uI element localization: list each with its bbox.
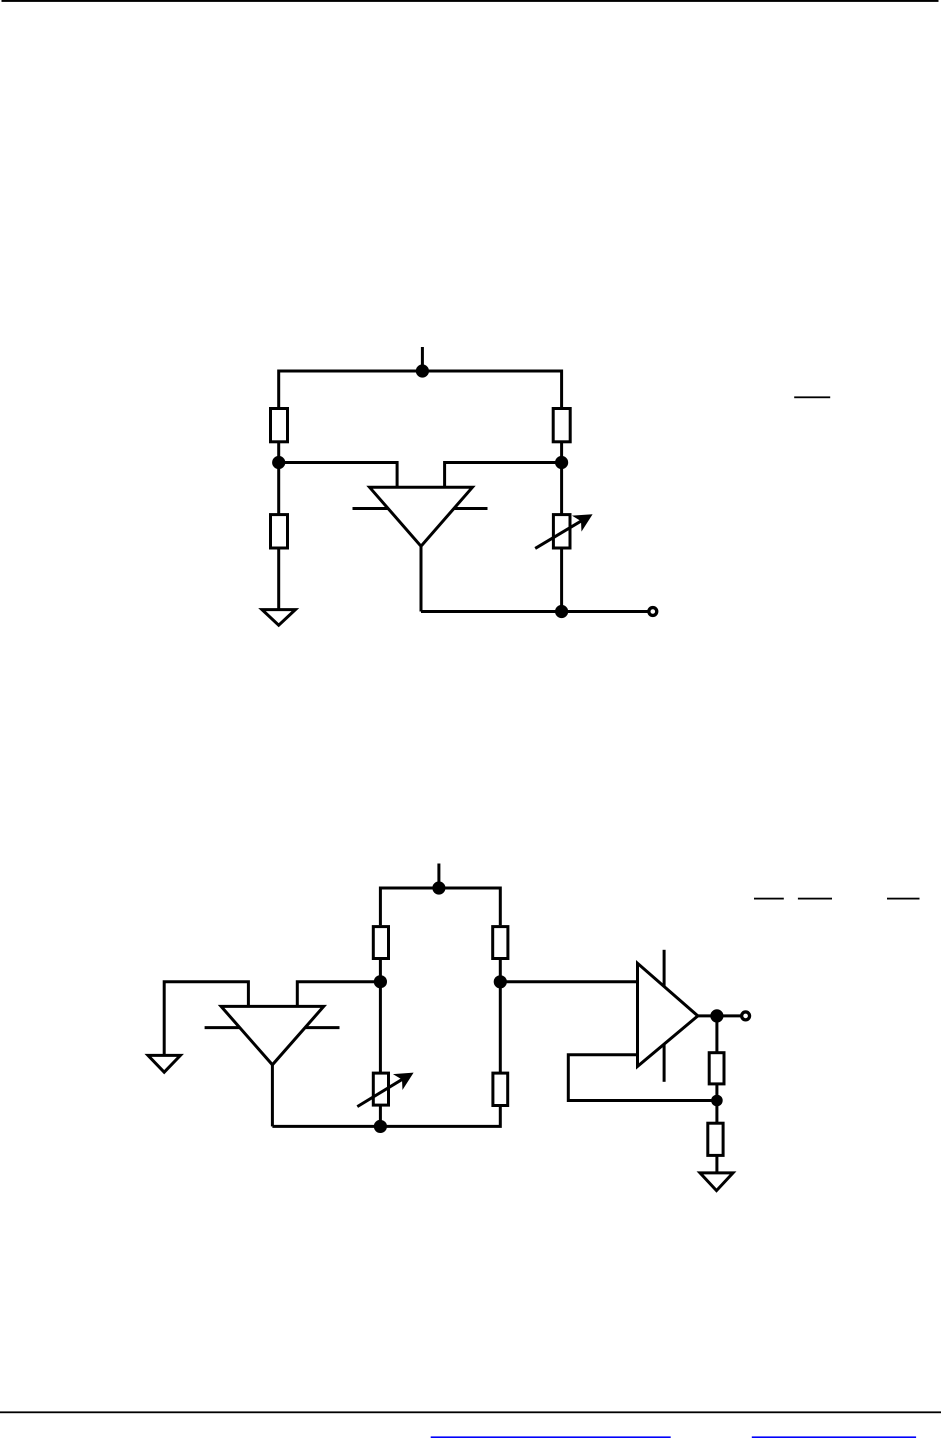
ground symbol circuit 2 output (700, 1173, 733, 1191)
op-amp U2 input bar right (301, 1026, 340, 1029)
top page rule (2, 0, 939, 2)
op-amp U3 (638, 963, 698, 1066)
node G: output junction circuit 2 (710, 1009, 723, 1022)
equation fraction bar B (circuit 2) (754, 898, 784, 900)
wire: right branch mid (560, 443, 563, 514)
op-amp U2 input bar left (205, 1026, 244, 1029)
wire: bridge bottom rail (272, 1106, 500, 1126)
footer link underline 2 (752, 1436, 916, 1438)
op-amp U1 input bar right (450, 507, 488, 510)
wire: supply stub circuit 2 (437, 864, 440, 889)
wire: left node to op-amp input (279, 463, 397, 488)
node: supply junction circuit 2 (432, 881, 445, 894)
wire: U2 output down to bottom rail (271, 1065, 274, 1127)
node H: feedback junction (711, 1095, 723, 1107)
resistor R1 (upper left) (271, 409, 288, 442)
op-amp U3 power stub top (663, 950, 666, 992)
resistor R7 (feedback upper) (709, 1053, 724, 1084)
resistor R6 (bridge lower right) (493, 1073, 508, 1105)
wire: left branch mid (277, 443, 280, 514)
wire: R8 to ground (715, 1157, 718, 1173)
wire: right node to op-amp input (445, 463, 562, 488)
equation fraction bar C (circuit 2) (798, 898, 832, 900)
op-amp U1 (370, 487, 473, 546)
ground symbol U2 (148, 1055, 180, 1072)
wire: bridge right branch (499, 960, 502, 1073)
node D: bridge left mid (374, 975, 387, 988)
resistor R4 (bridge upper left) (373, 927, 388, 959)
wire: R2 to ground (277, 550, 280, 610)
node E: bridge right mid (494, 975, 507, 988)
wire: U2 right input to bridge left node (297, 982, 380, 1007)
bottom page rule (0, 1411, 941, 1413)
resistor R2 (lower left) (271, 515, 288, 548)
footer link underline 1 (431, 1436, 671, 1438)
node: supply junction circuit 1 (416, 364, 429, 377)
op-amp U2 (221, 1006, 324, 1064)
wire: RT2 to bottom rail (379, 1105, 382, 1126)
resistor R5 (bridge upper right) (493, 927, 508, 959)
node A: left mid junction (272, 456, 285, 469)
thermistor RT1 body (553, 515, 570, 548)
wire: top rail circuit 1 (279, 371, 562, 407)
ground symbol circuit 1 (262, 610, 295, 626)
node F: bridge bottom junction (374, 1120, 387, 1133)
equation fraction bar A (circuit 1) (794, 396, 830, 398)
terminal: output circle circuit 1 (649, 608, 657, 616)
wire: bridge left branch (379, 960, 382, 1073)
wire: output node down (715, 1016, 718, 1052)
wire: bridge right node to U3 input (500, 980, 637, 983)
op-amp U3 power stub bottom (663, 1040, 666, 1082)
equation fraction bar D (circuit 2) (887, 898, 920, 900)
thermistor RT1 arrow (535, 514, 592, 548)
wire: RT1 to output rail (560, 550, 563, 612)
wire: U1 output down (420, 546, 423, 611)
wire: bridge top rail (380, 888, 500, 925)
resistor R8 (feedback lower) (708, 1123, 723, 1155)
wire: U3 lower input feedback loop (568, 1055, 717, 1101)
node C: output junction (555, 605, 568, 618)
terminal: output circle circuit 2 (742, 1012, 750, 1020)
wire: bottom output rail (421, 610, 648, 613)
resistor R3 (upper right) (553, 409, 570, 442)
wire: U2 left input to ground (164, 982, 248, 1055)
wire: R7 to R8 (715, 1085, 718, 1123)
thermistor RT2 body (373, 1073, 388, 1105)
node B: right mid junction (555, 456, 568, 469)
op-amp U1 input bar left (353, 507, 393, 510)
wire: supply stub circuit 1 (421, 347, 424, 371)
thermistor RT2 arrow (357, 1073, 413, 1107)
wire: U3 output (698, 1014, 741, 1017)
